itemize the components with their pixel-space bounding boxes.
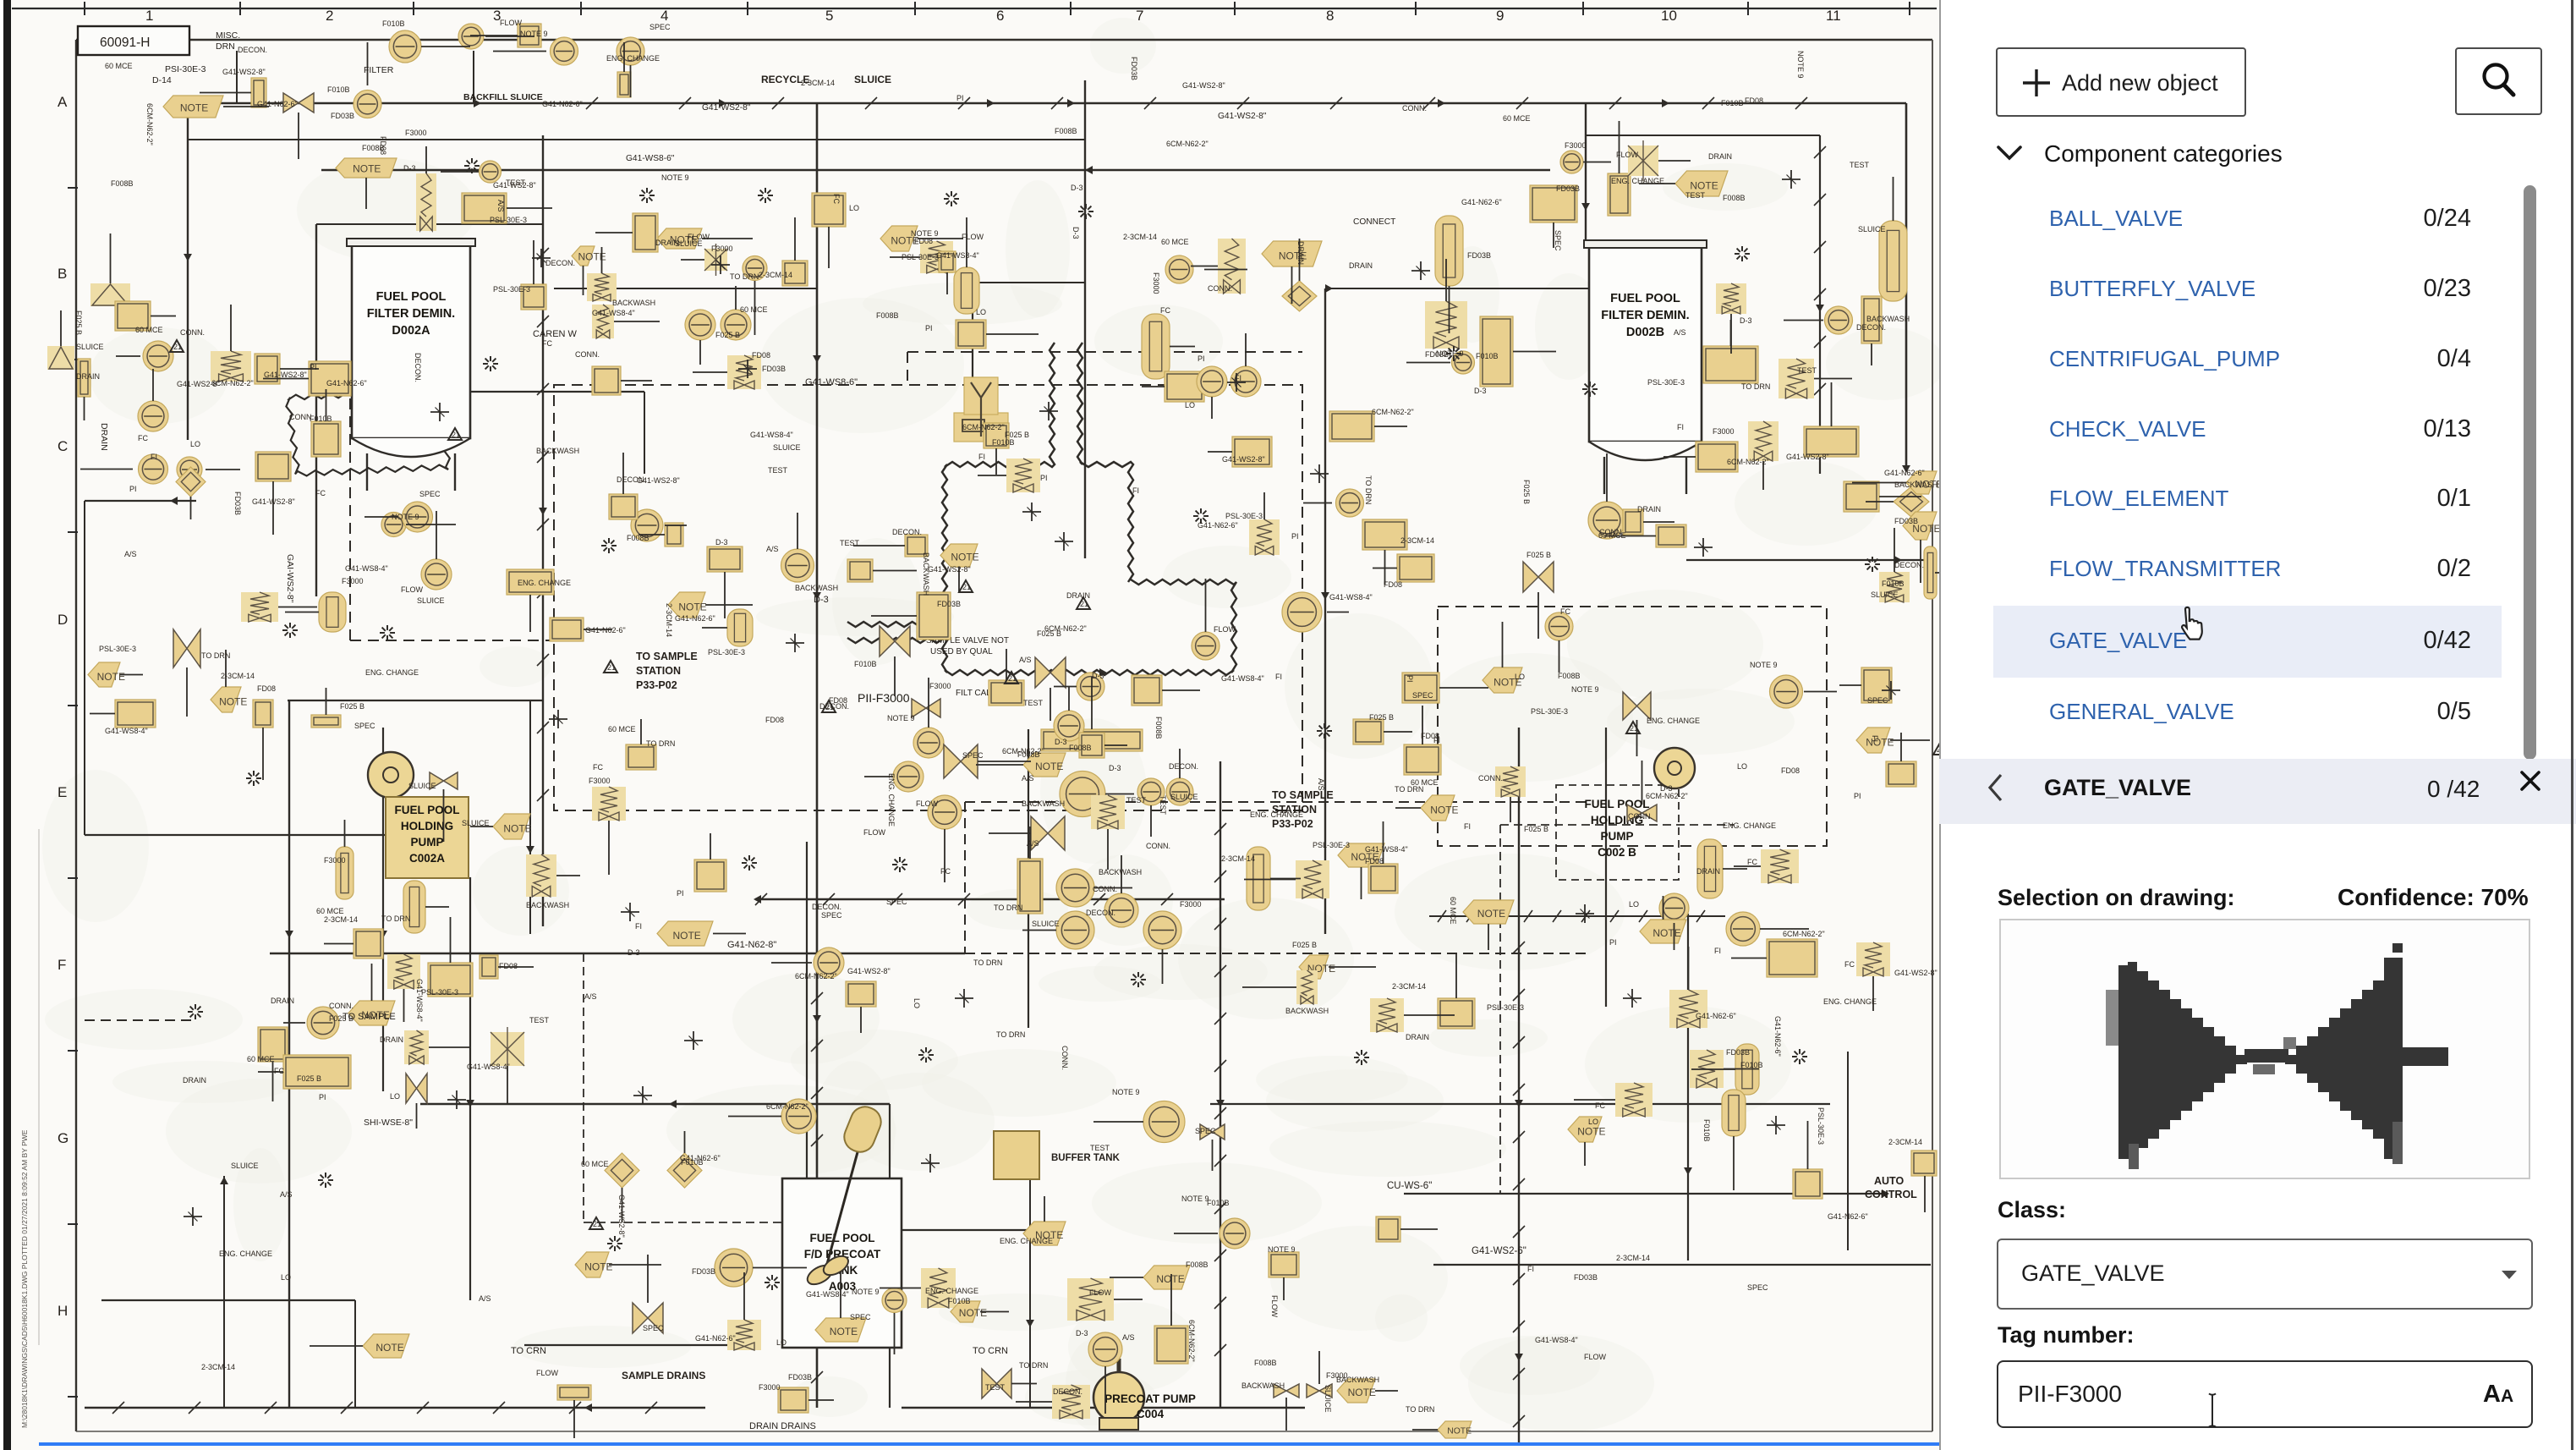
svg-text:STATION: STATION xyxy=(636,665,681,677)
svg-text:DRAIN DRAINS: DRAIN DRAINS xyxy=(749,1421,816,1431)
svg-text:PI: PI xyxy=(1854,792,1861,800)
svg-text:21: 21 xyxy=(1630,724,1638,733)
wire xyxy=(1110,1277,1143,1278)
instrument bubble xyxy=(1088,1332,1122,1366)
svg-text:NOTE 9: NOTE 9 xyxy=(1436,349,1464,358)
vent cross xyxy=(786,642,804,644)
flag xyxy=(1077,597,1090,609)
svg-text:D-3: D-3 xyxy=(1071,184,1083,192)
highlighted box xyxy=(115,700,156,728)
highlighted box xyxy=(1353,719,1384,744)
svg-text:FD08: FD08 xyxy=(1745,96,1763,105)
valve xyxy=(173,629,200,667)
wire xyxy=(808,1399,834,1401)
wire xyxy=(1879,496,1921,497)
wire xyxy=(1663,456,1696,458)
wire xyxy=(90,713,115,715)
cask pit cloud xyxy=(286,388,450,475)
wire xyxy=(710,833,711,860)
instrument bubble xyxy=(1060,772,1105,817)
actuated valve xyxy=(1249,519,1280,555)
highlighted box xyxy=(550,618,584,641)
wire xyxy=(1091,677,1093,729)
svg-text:F010B: F010B xyxy=(382,19,405,28)
wire xyxy=(200,92,251,94)
wire xyxy=(1731,958,1767,959)
svg-text:SPEC: SPEC xyxy=(1554,230,1562,251)
wire xyxy=(344,820,346,847)
wire xyxy=(416,1103,418,1129)
svg-text:FILTER DEMIN.: FILTER DEMIN. xyxy=(1601,309,1689,322)
wire xyxy=(1636,720,1638,756)
svg-text:CONN.: CONN. xyxy=(1478,774,1503,783)
highlighted box xyxy=(1079,733,1104,758)
svg-text:LO: LO xyxy=(190,440,200,448)
wire xyxy=(1500,824,1734,826)
svg-text:LO: LO xyxy=(913,998,921,1008)
svg-text:2-3CM-14: 2-3CM-14 xyxy=(665,603,673,637)
highlighted box xyxy=(1911,1151,1937,1176)
wire xyxy=(262,728,264,780)
misc drain riser xyxy=(236,51,238,103)
flag xyxy=(604,661,617,673)
agitator motor xyxy=(840,1102,885,1156)
highlighted box xyxy=(1402,673,1439,703)
highlighted box xyxy=(521,284,546,310)
wire xyxy=(498,966,534,968)
wire xyxy=(1730,314,1732,354)
svg-text:21: 21 xyxy=(607,663,616,672)
svg-text:FC: FC xyxy=(1160,306,1170,315)
radiation symbol xyxy=(1802,1056,1807,1057)
highlighted box xyxy=(847,559,873,582)
svg-text:FI: FI xyxy=(978,453,985,461)
svg-text:FC: FC xyxy=(1560,607,1570,616)
svg-text:21: 21 xyxy=(593,1220,601,1228)
wire xyxy=(1804,691,1837,693)
instrument bubble xyxy=(1726,912,1760,946)
wire xyxy=(623,42,625,72)
vent cross xyxy=(1767,1124,1785,1126)
instrument bubble xyxy=(1282,592,1322,632)
pipe left margin riser xyxy=(84,501,85,835)
svg-text:2: 2 xyxy=(326,8,333,24)
wire xyxy=(1029,1178,1031,1408)
radiation symbol xyxy=(1592,388,1598,390)
wire xyxy=(681,259,704,261)
actuated valve xyxy=(1761,849,1799,883)
wire xyxy=(1016,1401,1052,1403)
note tag xyxy=(668,592,705,618)
svg-text:FD03B: FD03B xyxy=(233,492,242,515)
wire xyxy=(110,233,112,283)
svg-text:PI: PI xyxy=(925,324,933,332)
svg-text:TEST: TEST xyxy=(1685,191,1706,200)
svg-text:F010B: F010B xyxy=(1207,1199,1230,1207)
svg-text:60 MCE: 60 MCE xyxy=(740,305,768,314)
wire xyxy=(864,776,893,777)
svg-text:D002A: D002A xyxy=(392,324,430,338)
svg-text:F008B: F008B xyxy=(876,311,899,320)
svg-text:FC: FC xyxy=(1595,1101,1605,1110)
svg-text:PI: PI xyxy=(1040,474,1048,482)
svg-text:PI: PI xyxy=(1609,938,1617,947)
note tag xyxy=(363,1334,409,1358)
valve xyxy=(633,1303,663,1333)
svg-text:FLOW: FLOW xyxy=(1089,1288,1112,1297)
wire xyxy=(584,1222,807,1223)
svg-text:FD03B: FD03B xyxy=(1894,517,1918,525)
svg-text:D-3: D-3 xyxy=(1092,672,1104,680)
svg-text:C: C xyxy=(58,438,68,454)
valve xyxy=(1523,562,1554,592)
instrument bubble xyxy=(551,37,578,65)
svg-text:TO DRN: TO DRN xyxy=(1019,1361,1048,1370)
wire xyxy=(873,570,917,572)
wire xyxy=(152,369,154,401)
wire xyxy=(1847,1052,1849,1250)
svg-text:F3000: F3000 xyxy=(1565,141,1587,150)
actuated valve xyxy=(920,241,953,273)
crossed circle xyxy=(1628,146,1658,176)
highlighted box xyxy=(1438,998,1475,1029)
dashed boundary right xyxy=(1438,607,1827,846)
flow arrow xyxy=(170,497,178,505)
instrument bubble xyxy=(1166,778,1193,805)
instrument bubble xyxy=(1336,489,1364,517)
valve xyxy=(1307,1384,1332,1398)
svg-text:NOTE: NOTE xyxy=(219,696,247,708)
dashed line C002B xyxy=(1556,785,1679,880)
svg-text:CONN.: CONN. xyxy=(329,1002,354,1010)
svg-text:DECON.: DECON. xyxy=(1856,323,1886,332)
svg-text:FD03B: FD03B xyxy=(1130,57,1138,80)
note tag xyxy=(1338,843,1384,867)
wire xyxy=(1445,259,1447,301)
actuated valve xyxy=(387,954,420,989)
svg-text:G41-N62-6": G41-N62-6" xyxy=(1696,1012,1736,1020)
svg-text:NOTE 9: NOTE 9 xyxy=(852,1288,880,1296)
note tag xyxy=(1143,1266,1190,1289)
svg-text:2-3CM-14: 2-3CM-14 xyxy=(1221,854,1255,863)
svg-text:FC: FC xyxy=(274,1067,284,1075)
wire xyxy=(595,232,633,233)
actuated valve xyxy=(1425,301,1467,349)
vent cross xyxy=(1039,410,1058,412)
note tag xyxy=(1337,1379,1375,1403)
flow arrow xyxy=(669,1100,677,1108)
svg-text:TO CRN: TO CRN xyxy=(511,1346,546,1356)
svg-text:DECON.: DECON. xyxy=(812,903,841,911)
flow arrow xyxy=(987,99,995,107)
svg-text:FLOW: FLOW xyxy=(1584,1353,1607,1361)
svg-text:F010B: F010B xyxy=(1702,1119,1711,1142)
svg-text:FILTER DEMIN.: FILTER DEMIN. xyxy=(367,307,455,321)
wire xyxy=(349,381,351,640)
svg-text:C004: C004 xyxy=(1137,1408,1165,1420)
radiation symbol xyxy=(1327,730,1332,732)
highlighted box xyxy=(1861,667,1892,703)
wire xyxy=(1658,160,1691,162)
actuated valve xyxy=(1052,1385,1090,1419)
highlighted box xyxy=(778,1387,808,1413)
svg-text:CONN.: CONN. xyxy=(1093,885,1117,893)
gate_valve row highlight xyxy=(1993,606,2502,678)
svg-text:F025 B: F025 B xyxy=(1526,551,1551,559)
svg-text:G41-WS2-8": G41-WS2-8" xyxy=(264,371,307,379)
svg-text:NOTE: NOTE xyxy=(830,1326,858,1337)
actuated valve xyxy=(592,787,626,821)
note tag xyxy=(815,1318,866,1342)
svg-text:FC: FC xyxy=(138,434,148,442)
wire xyxy=(972,288,973,377)
svg-text:FLOW: FLOW xyxy=(916,799,939,808)
highlighted box xyxy=(115,301,151,331)
svg-text:2-3CM-14: 2-3CM-14 xyxy=(1123,233,1157,241)
gate_valve detail header xyxy=(1939,759,2576,824)
wire xyxy=(326,688,327,715)
svg-text:DECON.: DECON. xyxy=(1053,1387,1082,1396)
wire xyxy=(1760,928,1809,930)
valve xyxy=(1031,816,1065,850)
highlighted box xyxy=(253,700,273,728)
svg-text:TEST: TEST xyxy=(1159,795,1167,816)
svg-text:PSI-30E-3: PSI-30E-3 xyxy=(165,64,206,74)
wire xyxy=(840,1271,841,1318)
note tag xyxy=(1421,795,1455,821)
wire xyxy=(258,1071,283,1073)
svg-text:PSL-30E-3: PSL-30E-3 xyxy=(1225,512,1263,520)
precoat pump C004 xyxy=(1093,1372,1144,1423)
svg-text:FI: FI xyxy=(1677,423,1684,431)
wire xyxy=(1105,794,1134,795)
flag xyxy=(822,700,836,712)
vent cross xyxy=(549,718,567,720)
wire xyxy=(702,627,727,629)
wire xyxy=(889,1104,891,1408)
wire xyxy=(1553,222,1554,248)
wire xyxy=(529,595,531,632)
svg-text:11: 11 xyxy=(1826,8,1841,24)
svg-text:P33-P02: P33-P02 xyxy=(1272,818,1313,830)
svg-text:NOTE: NOTE xyxy=(672,930,700,942)
svg-text:LO: LO xyxy=(1515,673,1525,681)
highlighted box xyxy=(1362,519,1407,550)
wire xyxy=(1299,239,1301,281)
svg-text:G41-WS2-8": G41-WS2-8" xyxy=(1218,112,1267,121)
wire xyxy=(794,217,796,261)
radiation symbol xyxy=(954,198,959,200)
svg-text:BACKFILL SLUICE: BACKFILL SLUICE xyxy=(463,92,543,102)
wire xyxy=(724,572,726,618)
highlighted box xyxy=(251,78,266,107)
vent cross xyxy=(1882,689,1900,691)
radiation symbol xyxy=(611,545,617,546)
wire xyxy=(989,832,1031,834)
svg-text:TO DRN: TO DRN xyxy=(1364,475,1373,504)
dashed boundary center xyxy=(554,385,1302,810)
svg-text:FD03B: FD03B xyxy=(762,365,786,373)
svg-text:NOTE: NOTE xyxy=(584,1261,612,1273)
note tag xyxy=(727,609,753,646)
svg-text:6CM-N62-2": 6CM-N62-2" xyxy=(145,103,154,146)
svg-text:G41-WS2-8": G41-WS2-8" xyxy=(928,565,971,574)
svg-text:F010B: F010B xyxy=(1740,1061,1763,1069)
wire xyxy=(1606,453,1608,502)
component categories chevron xyxy=(1996,144,2023,162)
wire xyxy=(1263,492,1265,519)
pipe row F xyxy=(420,1103,890,1105)
delta tag xyxy=(90,283,130,306)
note tag xyxy=(1483,667,1522,693)
highlighted box xyxy=(1368,864,1398,893)
radiation symbol xyxy=(256,777,261,779)
wire xyxy=(693,371,727,373)
svg-text:F3000: F3000 xyxy=(1152,272,1160,294)
svg-text:NOTE: NOTE xyxy=(1430,805,1458,816)
highlighted box xyxy=(633,213,658,252)
pipe main supply header xyxy=(196,102,1906,105)
wire xyxy=(608,821,610,875)
radiation symbol xyxy=(1141,979,1146,980)
wire xyxy=(1374,426,1407,427)
wire xyxy=(907,352,908,385)
svg-text:F008B: F008B xyxy=(1723,194,1746,202)
instrument bubble xyxy=(1192,632,1219,660)
svg-text:NOTE: NOTE xyxy=(1348,1387,1376,1398)
highlighted box xyxy=(354,929,383,958)
svg-text:F025 B: F025 B xyxy=(297,1074,321,1083)
svg-text:F3000: F3000 xyxy=(759,1383,781,1392)
svg-text:F025 B: F025 B xyxy=(340,702,364,711)
wire xyxy=(583,266,584,295)
class xyxy=(1998,1197,2066,1223)
radiation symbol xyxy=(1203,515,1209,517)
wire xyxy=(1107,829,1109,870)
note tag xyxy=(336,847,354,899)
note tag xyxy=(1463,900,1514,924)
svg-text:DECON.: DECON. xyxy=(1086,909,1115,917)
svg-text:G41-WS8-6": G41-WS8-6" xyxy=(626,154,675,163)
radiation symbol xyxy=(902,864,907,865)
pipe row E xyxy=(270,953,965,954)
sheet frame xyxy=(76,39,1932,41)
highlighted box xyxy=(1608,173,1631,216)
svg-text:21: 21 xyxy=(962,583,971,591)
highlighted box xyxy=(1696,442,1738,472)
svg-text:SLUICE: SLUICE xyxy=(1170,793,1198,801)
wire xyxy=(1488,924,1489,950)
svg-text:FD03B: FD03B xyxy=(1726,1048,1750,1057)
svg-text:21: 21 xyxy=(452,431,460,439)
logic diamond xyxy=(605,1153,639,1188)
instrument bubble xyxy=(421,559,452,590)
note tag xyxy=(1568,1117,1602,1142)
svg-text:PSL-30E-3: PSL-30E-3 xyxy=(902,253,939,261)
svg-text:2-3CM-14: 2-3CM-14 xyxy=(221,672,255,680)
svg-text:CAREN W: CAREN W xyxy=(533,329,578,339)
highlighted box xyxy=(1329,411,1374,442)
wire xyxy=(573,1400,575,1438)
svg-text:G41-WS8-4": G41-WS8-4" xyxy=(1365,845,1408,854)
highlighted box xyxy=(592,366,621,395)
svg-text:9: 9 xyxy=(1496,8,1504,24)
wire xyxy=(806,842,808,1294)
svg-text:G41-WS2-8": G41-WS2-8" xyxy=(1786,453,1829,461)
wire xyxy=(1170,346,1195,348)
svg-text:6CM-N62-2": 6CM-N62-2" xyxy=(795,972,837,980)
svg-text:SPEC: SPEC xyxy=(419,490,441,498)
wire xyxy=(556,875,580,876)
svg-text:F025 B: F025 B xyxy=(715,331,740,339)
wire xyxy=(754,281,756,335)
pipe tank A outlet xyxy=(470,391,644,393)
svg-text:D-14: D-14 xyxy=(152,75,172,85)
wire xyxy=(1872,976,1874,1011)
svg-text:D-3: D-3 xyxy=(1055,738,1067,746)
note tag xyxy=(211,687,241,712)
wire xyxy=(278,607,317,608)
note tag xyxy=(1924,546,1937,599)
wire xyxy=(1784,320,1823,321)
svg-text:BACKWASH: BACKWASH xyxy=(1866,315,1910,323)
note tag xyxy=(657,921,713,946)
svg-text:G41-N62-6": G41-N62-6" xyxy=(675,614,715,623)
svg-text:NOTE: NOTE xyxy=(959,1307,987,1319)
svg-text:FLOW: FLOW xyxy=(401,585,424,594)
vent cross xyxy=(633,1095,652,1096)
note tag xyxy=(954,267,979,314)
note tag xyxy=(575,1252,609,1277)
svg-text:BACKWASH: BACKWASH xyxy=(536,447,579,455)
svg-text:FLOW: FLOW xyxy=(863,828,886,837)
wire xyxy=(272,481,274,535)
svg-text:21: 21 xyxy=(173,343,182,351)
svg-text:FD03B: FD03B xyxy=(937,600,961,608)
svg-text:SPEC: SPEC xyxy=(1867,696,1888,705)
svg-text:60 MCE: 60 MCE xyxy=(608,725,636,733)
note tag xyxy=(1262,241,1322,266)
svg-text:TEST: TEST xyxy=(985,1383,1006,1392)
radiation symbol xyxy=(768,195,773,196)
wire xyxy=(1104,1366,1106,1414)
instrument bubble xyxy=(1143,1101,1185,1143)
wire xyxy=(1093,1121,1143,1123)
radiation symbol xyxy=(474,165,480,167)
wire xyxy=(406,524,456,525)
pipe riser 5 xyxy=(1084,80,1086,558)
highlighted box xyxy=(518,24,541,47)
svg-text:G41-WS2-8": G41-WS2-8" xyxy=(493,181,536,189)
wire xyxy=(1050,688,1051,721)
wire xyxy=(365,178,367,209)
svg-text:A: A xyxy=(58,94,68,110)
svg-text:A/S: A/S xyxy=(1027,839,1039,848)
note tag xyxy=(880,226,918,251)
instrument bubble xyxy=(1588,502,1625,539)
wire xyxy=(1395,807,1421,809)
svg-text:F008B: F008B xyxy=(1055,127,1077,135)
highlighted box xyxy=(1861,296,1882,343)
svg-text:FD03B: FD03B xyxy=(788,1373,812,1381)
selection labels xyxy=(1998,885,2235,911)
svg-text:6CM-N62-2": 6CM-N62-2" xyxy=(1372,408,1414,416)
svg-text:DECON.: DECON. xyxy=(1169,762,1198,771)
highlighted box xyxy=(1397,554,1434,582)
instrument bubble xyxy=(928,795,962,829)
highlighted box xyxy=(905,535,928,557)
svg-text:SAMPLE DRAINS: SAMPLE DRAINS xyxy=(622,1370,705,1381)
